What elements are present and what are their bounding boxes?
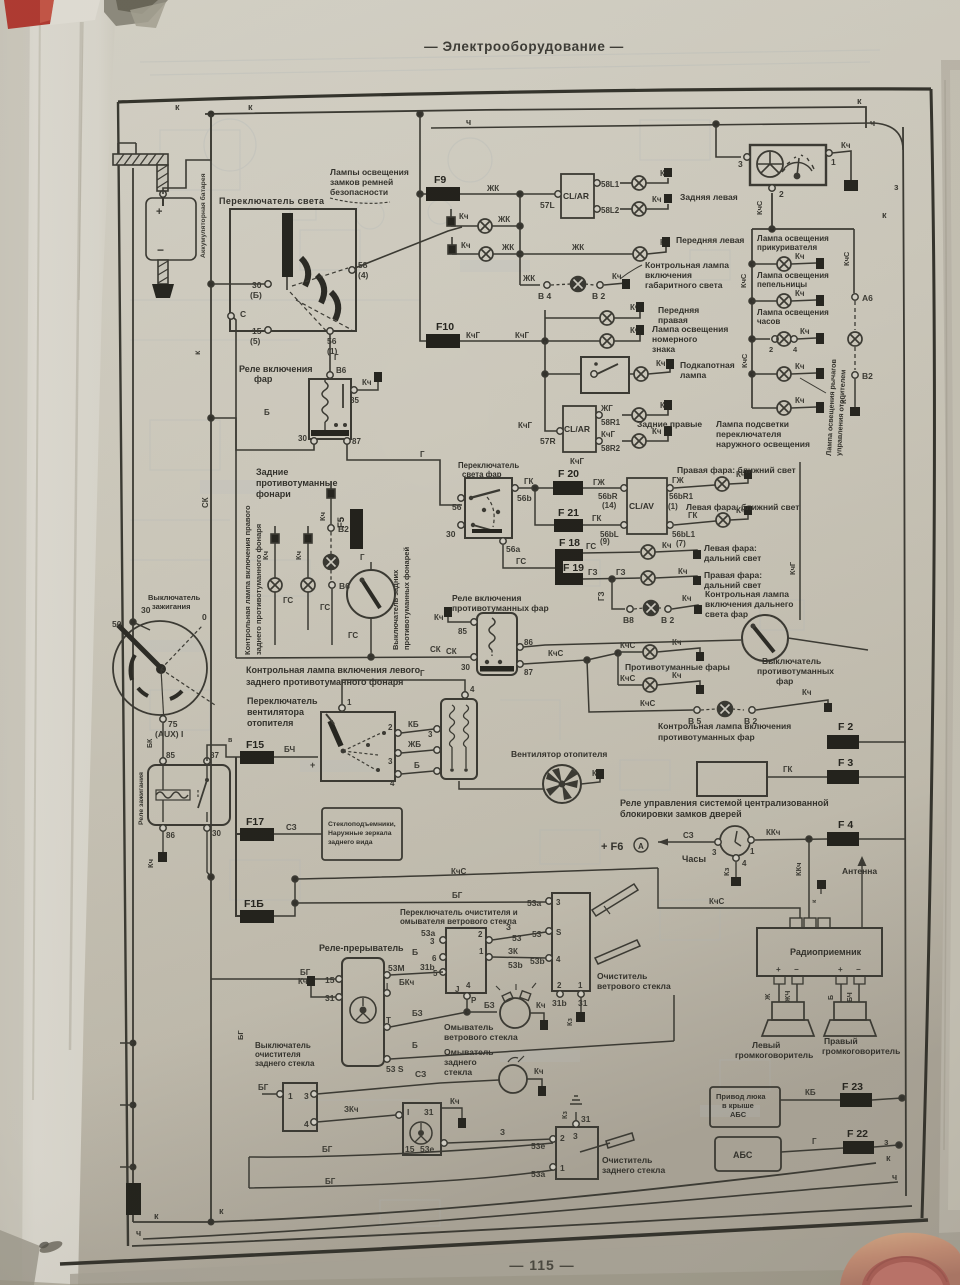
- left speaker: [762, 1002, 814, 1036]
- radio top pins: [790, 918, 802, 928]
- dark notch between pages at top: [104, 0, 168, 26]
- callout line to vertical label: [800, 378, 826, 393]
- row: marker light control lamp dashed: [520, 260, 729, 301]
- fuse F23: [780, 1081, 906, 1107]
- heavy bottom bar: [311, 430, 349, 436]
- clock lamp: [752, 308, 829, 354]
- F21 to CL/AV: [583, 524, 624, 526]
- fan motor: [511, 749, 607, 803]
- light switch arcs: [301, 258, 338, 320]
- +F6 arrow: [601, 831, 715, 853]
- heater levers lamp: [752, 362, 824, 381]
- feed bus to F9/F10: [420, 114, 426, 194]
- BG vertical collector: [248, 1157, 250, 1188]
- wire 56b to F20: [518, 487, 553, 489]
- wire F16 out: [274, 903, 295, 916]
- wire 86 to fog switch: [523, 640, 741, 647]
- wire switch4 to rear motor: [317, 1115, 396, 1122]
- left head low beam lamp: [667, 502, 800, 539]
- row: front right: [545, 302, 699, 325]
- washer pump text: [444, 1022, 518, 1042]
- wire bus to pin30: [211, 283, 265, 285]
- fog control lamp row: [587, 660, 832, 726]
- wire T to washer pump B3: [390, 1012, 446, 1027]
- col switch bottom pins: [552, 981, 588, 1026]
- wire bus K top: [205, 107, 860, 114]
- BG bus wire: [295, 902, 546, 903]
- ignition switch: [112, 605, 215, 739]
- bottom page edge shade: [70, 1232, 960, 1285]
- dashed selector lines: [343, 733, 381, 770]
- label k top-left: [136, 96, 899, 1238]
- finger bottom right: [840, 1233, 960, 1285]
- wire BG to relay 15: [295, 978, 336, 980]
- rear fog telltale lamps: [261, 526, 358, 645]
- pin 87 bottom right: [344, 438, 350, 444]
- B6 pin: [329, 582, 335, 588]
- fuse F18: [555, 537, 583, 585]
- fuse F5 vertical: [336, 509, 363, 549]
- F15-F17 feed vertical: [232, 757, 240, 834]
- bottom-left dark corner: [0, 1230, 40, 1285]
- lamp rear-left 2: [620, 192, 738, 216]
- pin 85 right: [351, 387, 357, 393]
- wire switch3 to rear washer: [317, 1080, 499, 1094]
- B2 control chain rear fog: [318, 481, 349, 580]
- right head low beam lamp: [667, 465, 796, 511]
- outer border right: [922, 89, 934, 1218]
- ground top right: [432, 1108, 454, 1118]
- fuse F10: [420, 268, 460, 348]
- relay 30 down to bus: [207, 831, 211, 877]
- right high beam row: [583, 567, 762, 590]
- wire F10 out: [460, 310, 545, 341]
- wire bus CH right vertical: [903, 127, 906, 1196]
- fuse F3: [827, 757, 906, 784]
- KchS long wire: [295, 868, 658, 879]
- wire 87 to F15: [207, 745, 240, 761]
- A6 lamp chain right: [839, 229, 873, 416]
- rear fog switch circle: [347, 553, 395, 660]
- underhood lamp box: [545, 341, 735, 393]
- leftmost darker edge: [0, 0, 30, 1285]
- wire motor to rear wiper unit: [447, 1139, 553, 1143]
- outer border left: [118, 102, 128, 1246]
- wire 87 down to headlight switch: [347, 444, 462, 505]
- fog lamp branch vertical: [617, 653, 619, 685]
- battery: [146, 198, 196, 260]
- bottom-left fuse black bar: [126, 1183, 141, 1215]
- rear washer text: [444, 1047, 494, 1077]
- wire F17 to window box: [274, 833, 322, 835]
- high beam control lamp row: [597, 579, 794, 625]
- lamp rear-left 1: [620, 168, 672, 190]
- wire bus K top corner down: [860, 107, 866, 128]
- clock to F4 wire: [755, 839, 827, 840]
- outer border bottom heavy: [60, 1220, 928, 1264]
- headlight mode switch box: [446, 478, 532, 554]
- fingernail: [862, 1256, 950, 1285]
- dashed spokes: [161, 625, 203, 669]
- pin 30 bottom left: [311, 438, 317, 444]
- heater fan switch title: [247, 696, 318, 728]
- rear fog lamps title: [256, 467, 337, 499]
- left speaker wires: [765, 984, 797, 1003]
- black contact bar: [330, 721, 341, 746]
- SK wire from light switch C pin: [232, 316, 236, 658]
- heater switch wires to resistor: [401, 720, 440, 774]
- wiper col switch title: [400, 908, 518, 926]
- stub wires on ground bus: [120, 1043, 133, 1167]
- wire ignition down: [162, 723, 164, 758]
- fuse F9: [426, 174, 460, 201]
- CL/AR 57R box: [518, 371, 596, 466]
- inner arcs: [131, 655, 135, 680]
- wire bus K bottom sloped: [133, 1163, 876, 1222]
- fog lamp 1: [618, 638, 704, 661]
- page right-edge shadow band: [939, 60, 960, 1240]
- coil zigzag: [322, 382, 328, 422]
- wire F9 right: [460, 193, 556, 195]
- fog switch text: [757, 656, 834, 686]
- central locking control box: [697, 762, 827, 796]
- wire bus CH right corner: [874, 123, 903, 150]
- rear right lamp 1: [596, 400, 672, 427]
- wiper col switch pin3: [546, 901, 548, 903]
- crease shadow near top: [79, 22, 83, 300]
- pin 30(B): [265, 281, 271, 287]
- coil horizontal: [156, 792, 188, 798]
- fog relay box: [434, 607, 533, 677]
- crease line 2: [70, 22, 81, 1050]
- rear wiper unit text: [602, 1155, 665, 1175]
- wiper column switch box: [552, 893, 590, 991]
- wiper interval relay box: [325, 958, 405, 1074]
- wire 56 down from light switch: [329, 334, 331, 372]
- red object top-left: [4, 0, 54, 29]
- wiper arm symbol: [580, 1143, 610, 1152]
- pin 58(4): [349, 267, 355, 273]
- radio speaker terminals: [773, 965, 865, 984]
- wire KchS cluster to column: [771, 193, 773, 229]
- control lamp left rear fog text: [246, 665, 421, 687]
- fuse F2: [827, 721, 906, 749]
- left book page-edge strip: [0, 0, 116, 1285]
- right speaker: [824, 1002, 876, 1036]
- wire bus CH top: [431, 123, 874, 128]
- fuse F4: [827, 819, 906, 846]
- fan motor feed: [459, 781, 543, 789]
- key lever thick: [118, 625, 163, 670]
- radio: [757, 918, 882, 976]
- rear wiper motor block: [396, 1097, 466, 1155]
- ignition relay box: [148, 751, 230, 840]
- wire B to relay 30: [211, 418, 314, 450]
- clock: [682, 826, 755, 868]
- switch illumination lamp: [752, 396, 824, 415]
- rear wiper unit: [531, 1096, 634, 1179]
- pin CK left: [471, 654, 477, 660]
- speaker labels: [735, 1036, 900, 1060]
- crease line 1: [33, 0, 40, 1100]
- wire pin1 up and G to resistor top: [342, 680, 465, 704]
- left high beam row: [583, 537, 761, 563]
- rear wiper switch box: [258, 1083, 317, 1131]
- F20 to CL/AV: [583, 487, 624, 489]
- wire 53S down and right: [390, 1040, 560, 1059]
- central locking text: [620, 798, 829, 819]
- heater fan switch box: [321, 698, 401, 788]
- fuse F22: [781, 1128, 902, 1154]
- cigarette lighter lamp: [752, 234, 829, 271]
- smudge bottom-left: [38, 1239, 64, 1256]
- battery negative hatched lead + ground: [152, 260, 174, 298]
- ABS box: [715, 1137, 781, 1171]
- KchS bus to lamps: [587, 653, 618, 660]
- antenna: [842, 856, 877, 928]
- wire F15 to heater switch: [274, 756, 318, 758]
- left vertical bus K (ground): [132, 168, 134, 1183]
- fuse F16: [240, 898, 274, 923]
- contact right: [342, 384, 344, 408]
- pin 15(5): [265, 327, 271, 333]
- light switch contact bar: [282, 213, 293, 277]
- left vertical bus 2: [210, 114, 212, 1222]
- rear wiper switch title: [255, 1041, 315, 1068]
- pin kch top-left: [471, 619, 477, 625]
- nail base shadow line: [867, 1257, 947, 1282]
- power windows box: [322, 808, 402, 860]
- radio ground small: [820, 889, 822, 894]
- fuse F21: [554, 507, 583, 532]
- wire F10 feed: [420, 194, 426, 341]
- row: licence plate lamp: [515, 324, 728, 354]
- text wiper windshield: [597, 971, 671, 991]
- clock ground: [735, 862, 737, 877]
- fog switch circle: [742, 615, 868, 661]
- sunroof box: [710, 1087, 780, 1127]
- ground hatched bar battery: [113, 143, 168, 165]
- pins 58L1 58L2: [594, 180, 600, 186]
- rear right lamp 2: [596, 420, 672, 453]
- KchS vertical from cluster pin2: [771, 193, 773, 226]
- note arrow dashed: [330, 198, 390, 203]
- windshield washer pump: [496, 983, 548, 1030]
- vignette overlay: [0, 0, 1, 1]
- CL/AV box: [627, 478, 667, 534]
- outer border top: [118, 89, 931, 102]
- wire 58 diagonal from light switch: [355, 227, 462, 268]
- hatched lead to battery: [157, 165, 168, 197]
- wire bus CH bottom sloped: [143, 1182, 898, 1239]
- rear washer pump: [418, 1056, 546, 1096]
- wire CK from left: [236, 657, 471, 658]
- ashtray lamp: [752, 271, 829, 308]
- light switch dashed links: [290, 268, 352, 335]
- wires middle box to col switch: [492, 923, 562, 970]
- lamp row seat-belt 1: [447, 209, 520, 233]
- wiper blades icon top: [592, 884, 638, 916]
- right lamp column ladder: [749, 226, 854, 408]
- seat belt lock lamps note: [330, 167, 409, 197]
- pin 86 right: [517, 644, 523, 650]
- fuse F15: [240, 739, 274, 764]
- CL/AR 57L box: [540, 174, 594, 218]
- right speaker wires: [828, 984, 859, 1002]
- fuse F20: [553, 468, 583, 495]
- vertical branch bus from F9 wire down: [519, 194, 521, 285]
- fog lamp 2: [618, 671, 704, 694]
- relay 31 ground: [311, 986, 336, 997]
- junction dots on left buses: [208, 111, 214, 117]
- BG wire to 53e: [211, 1139, 553, 1152]
- light switch box: [230, 209, 356, 331]
- wire 87 KchS: [523, 660, 587, 664]
- pin 56(1): [327, 328, 333, 334]
- contact: [206, 765, 208, 822]
- wire 53M to middle box: [390, 972, 443, 975]
- wire ignition 30 from left bus: [133, 622, 150, 630]
- instrument cluster box: [738, 145, 836, 199]
- white block right of red object: [50, 0, 100, 25]
- wire battery plus to bus: [163, 114, 211, 194]
- row: front left position lamp: [448, 235, 744, 261]
- fog control lamp text: [658, 721, 791, 742]
- BG long wires bottom: [249, 1143, 553, 1155]
- fuse F17: [240, 816, 274, 841]
- cluster feed from ch bus: [716, 124, 741, 157]
- wire 56a down to F19: [503, 545, 555, 568]
- KchG vertical wire right: [799, 462, 801, 620]
- middle washer box: [412, 928, 492, 1005]
- heater resistor box: [441, 685, 477, 779]
- fuse F19: [555, 562, 584, 585]
- wire I to 6: [390, 986, 430, 993]
- KKch vertical to radio: [808, 839, 810, 918]
- inner border bottom: [132, 1206, 912, 1246]
- cluster ground: [832, 151, 851, 180]
- wiper blades icon bottom: [595, 940, 640, 964]
- relay 86 ground: [158, 831, 163, 855]
- pin 87 right: [517, 661, 523, 667]
- wire C3 to rear washer: [320, 1080, 499, 1094]
- headlamp relay box: [298, 366, 382, 446]
